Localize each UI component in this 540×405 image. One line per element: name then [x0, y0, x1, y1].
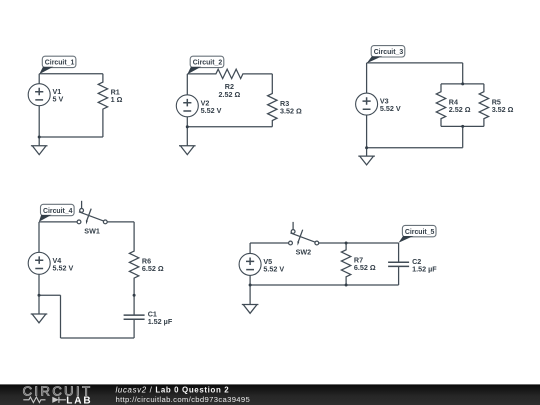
resistor R6: [129, 222, 163, 295]
label Circuit_4 callout: [39, 204, 74, 221]
wire: [39, 73, 103, 75]
svg-text:6.52 Ω: 6.52 Ω: [354, 263, 376, 272]
label Circuit_5 callout: [399, 225, 437, 242]
svg-text:5 V: 5 V: [53, 95, 64, 104]
resistor R7: [341, 243, 375, 285]
svg-text:5.52 V: 5.52 V: [53, 263, 74, 272]
wire: [186, 117, 188, 127]
wire: [38, 274, 40, 295]
svg-text:Circuit_4: Circuit_4: [43, 208, 73, 215]
voltage source V1: [28, 84, 63, 106]
svg-text:http://circuitlab.com/cbd973ca: http://circuitlab.com/cbd973ca39495: [116, 395, 251, 404]
resistor R5: [479, 84, 513, 127]
junction dot: [365, 146, 368, 149]
wire: [38, 137, 40, 146]
wire: [250, 284, 399, 286]
wire: [367, 147, 463, 149]
svg-text:SW1: SW1: [84, 227, 100, 236]
junction dot: [38, 294, 41, 297]
resistor R4: [436, 84, 470, 127]
capacitor C1: [124, 310, 173, 327]
wire: [186, 74, 188, 95]
wire: [38, 222, 40, 253]
label Circuit_1 callout: [39, 56, 76, 74]
svg-text:Circuit_1: Circuit_1: [45, 60, 75, 67]
ground: [242, 305, 259, 314]
wire: [39, 221, 77, 223]
capacitor C2: [388, 257, 437, 274]
svg-text:1.52 µF: 1.52 µF: [148, 317, 173, 326]
wire: [187, 126, 272, 128]
junction dot: [345, 242, 348, 245]
wire: [38, 74, 40, 84]
wire: [441, 83, 484, 85]
wire: [249, 275, 251, 285]
wire: [366, 115, 368, 148]
svg-text:3.52 Ω: 3.52 Ω: [492, 105, 514, 114]
ground: [358, 156, 375, 165]
switch SW2: [289, 222, 319, 257]
wire: [366, 63, 368, 93]
junction dot: [38, 136, 41, 139]
voltage source V2: [176, 95, 221, 117]
switch SW1: [77, 201, 107, 236]
wire: [38, 295, 40, 314]
wire: [319, 242, 399, 244]
wire: [186, 127, 188, 146]
wire: [60, 295, 62, 338]
voltage source V5: [239, 253, 284, 275]
wire: [38, 106, 40, 137]
svg-text:LAB: LAB: [66, 395, 92, 405]
label Circuit_3 callout: [367, 46, 405, 64]
resistor R2: [187, 69, 272, 99]
wire: [107, 221, 134, 223]
wire: [39, 136, 103, 138]
ground: [31, 314, 48, 323]
wire: [39, 294, 61, 296]
wire: [133, 295, 135, 315]
svg-text:SW2: SW2: [296, 248, 312, 257]
ground: [31, 146, 48, 155]
wire: [398, 266, 400, 285]
junction dot: [461, 82, 464, 85]
svg-text:Circuit_5: Circuit_5: [405, 229, 435, 236]
svg-text:6.52 Ω: 6.52 Ω: [142, 264, 164, 273]
ground: [179, 146, 196, 155]
wire: [367, 62, 463, 64]
svg-text:5.52 V: 5.52 V: [201, 106, 222, 115]
svg-text:5.52 V: 5.52 V: [380, 104, 401, 113]
svg-text:Circuit_2: Circuit_2: [193, 60, 223, 67]
resistor R3: [268, 74, 302, 127]
wire: [398, 243, 400, 262]
wire: [133, 319, 135, 338]
svg-text:2.52 Ω: 2.52 Ω: [219, 90, 241, 99]
wire: [441, 125, 484, 127]
junction dot: [461, 125, 464, 128]
svg-text:Circuit_3: Circuit_3: [374, 49, 404, 56]
svg-text:5.52 V: 5.52 V: [263, 264, 284, 273]
wire: [366, 148, 368, 156]
junction dot: [133, 294, 136, 297]
wire: [249, 243, 251, 253]
wire: [249, 285, 251, 305]
junction dot: [186, 125, 189, 128]
voltage source V3: [356, 93, 401, 115]
svg-text:1.52 µF: 1.52 µF: [412, 264, 437, 273]
svg-text:2.52 Ω: 2.52 Ω: [449, 105, 471, 114]
resistor R1: [98, 74, 122, 137]
junction dot: [249, 284, 252, 287]
voltage source V4: [28, 252, 73, 274]
wire: [250, 242, 289, 244]
label Circuit_2 callout: [187, 56, 223, 74]
wire: [462, 63, 464, 84]
CircuitLab logo: [23, 383, 93, 405]
svg-text:1 Ω: 1 Ω: [111, 95, 123, 104]
wire: [61, 337, 135, 339]
wire: [462, 126, 464, 147]
svg-text:3.52 Ω: 3.52 Ω: [280, 107, 302, 116]
svg-text:lucasv2 / Lab 0 Question 2: lucasv2 / Lab 0 Question 2: [116, 385, 230, 394]
junction dot: [345, 284, 348, 287]
